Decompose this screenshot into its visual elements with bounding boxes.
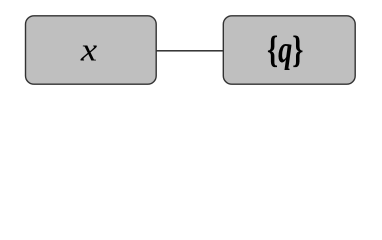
svg-text:{q}: {q} bbox=[267, 29, 303, 71]
node x bbox=[26, 16, 157, 84]
svg-text:x: x bbox=[80, 31, 98, 68]
wire bbox=[156, 50, 224, 52]
node {q} bbox=[223, 16, 355, 84]
